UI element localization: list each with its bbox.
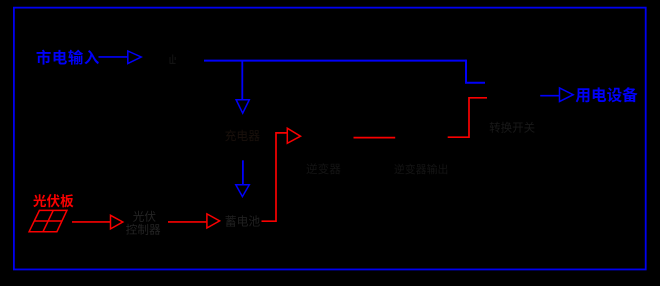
wire W11: inverter to output <box>354 137 396 139</box>
wire W8: controller to battery <box>168 221 206 223</box>
wire W12: output up to switch <box>448 98 487 137</box>
arrow A3: down into battery <box>236 185 250 197</box>
wire W4: charger to battery <box>242 160 244 184</box>
svg-text:充电器: 充电器 <box>225 127 261 144</box>
arrow A4: into load <box>560 88 574 102</box>
arrow A1: into hidden mains node <box>128 51 141 64</box>
wire W2: main AC bus <box>204 60 466 62</box>
svg-text:控制器: 控制器 <box>126 222 161 238</box>
svg-text:逆变器: 逆变器 <box>306 161 341 177</box>
svg-text:用电设备: 用电设备 <box>575 84 638 106</box>
hidden node label: faint glyph fragment <box>170 55 176 64</box>
arrow A7: into inverter <box>287 128 300 143</box>
PV panel symbol <box>29 210 67 231</box>
arrow A2: down into charger <box>236 100 249 114</box>
wire W1: mains label to arrow <box>99 56 128 58</box>
wire W3: branch down to charger <box>241 61 243 99</box>
arrow A5: into controller <box>111 215 123 229</box>
wire W9/W10: battery right then up to inverter <box>262 133 287 221</box>
svg-text:蓄电池: 蓄电池 <box>225 212 261 229</box>
svg-text:光伏板: 光伏板 <box>33 190 74 210</box>
wire W6: switch to load arrow <box>540 95 559 97</box>
svg-text:逆变器输出: 逆变器输出 <box>394 161 448 177</box>
arrow A6: into battery <box>207 214 220 228</box>
wire W7: PV to controller <box>72 221 110 223</box>
wire W5: AC bus right side down to switch <box>466 60 485 83</box>
svg-text:转换开关: 转换开关 <box>489 119 535 135</box>
svg-text:市电输入: 市电输入 <box>36 46 100 68</box>
